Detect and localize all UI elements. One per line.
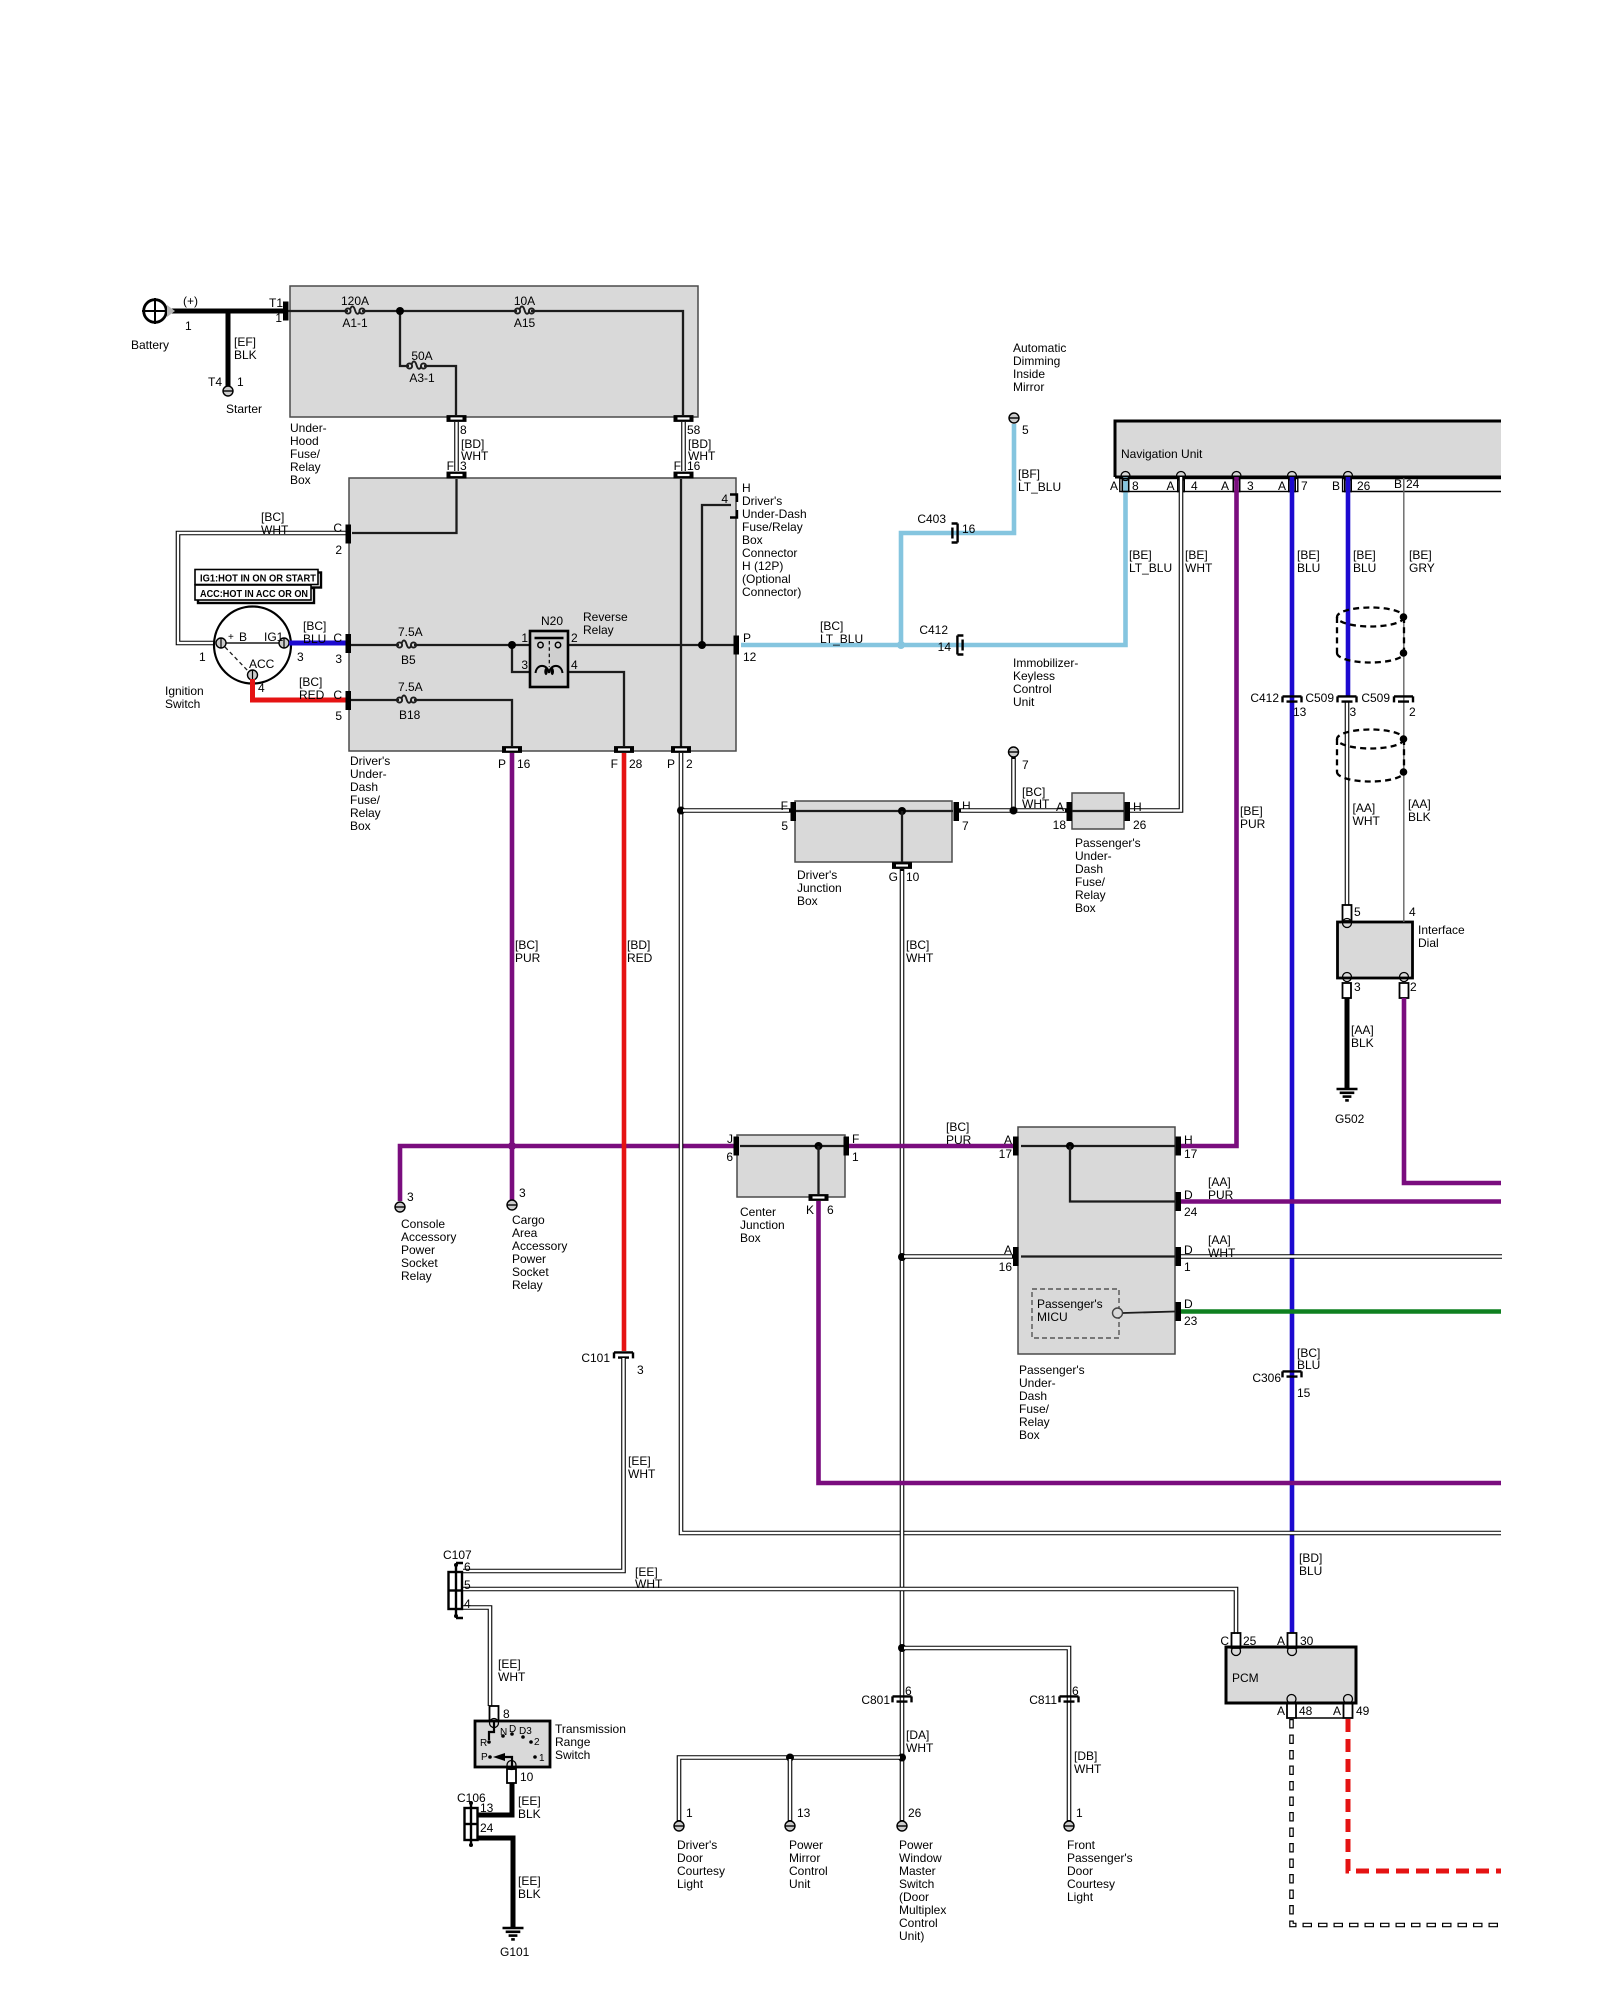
svg-text:Box: Box xyxy=(740,1231,761,1245)
interface dial pin 5 xyxy=(1343,905,1362,928)
svg-text:Driver's: Driver's xyxy=(350,754,390,768)
svg-text:WHT: WHT xyxy=(906,1741,934,1755)
svg-text:3: 3 xyxy=(407,1190,414,1204)
svg-text:24: 24 xyxy=(480,1821,494,1835)
wire branch to A16 xyxy=(898,1253,1013,1261)
svg-text:(Door: (Door xyxy=(899,1890,929,1904)
svg-text:[EE]: [EE] xyxy=(518,1874,541,1888)
svg-text:C: C xyxy=(333,521,342,535)
connector H17 xyxy=(1176,1133,1198,1161)
wire C101 to C107 pin6 [EE] WHT xyxy=(463,1358,656,1571)
svg-text:15: 15 xyxy=(1297,1386,1311,1400)
ignition switch feed loop [BC] WHT xyxy=(178,510,346,643)
svg-text:14: 14 xyxy=(938,640,952,654)
connector 58 / F16 xyxy=(674,415,716,478)
50A branch wire xyxy=(400,311,456,415)
power window master switch ground xyxy=(897,1806,946,1943)
svg-text:Dash: Dash xyxy=(350,780,378,794)
svg-text:F: F xyxy=(674,459,681,473)
Passenger's MICU xyxy=(1032,1289,1175,1338)
connector J6 xyxy=(726,1132,739,1164)
svg-text:Area: Area xyxy=(512,1226,538,1240)
passenger box internal A16-D1 xyxy=(1021,1255,1175,1257)
svg-text:C412: C412 xyxy=(1250,691,1279,705)
svg-text:6: 6 xyxy=(827,1203,834,1217)
purple junction xyxy=(508,1142,516,1150)
connector D1 xyxy=(1176,1243,1194,1274)
svg-text:3: 3 xyxy=(1354,980,1361,994)
Interface Dial xyxy=(1338,922,1466,978)
connector C107 xyxy=(443,1548,472,1618)
svg-text:Multiplex: Multiplex xyxy=(899,1903,946,1917)
svg-text:A: A xyxy=(1277,1704,1285,1718)
svg-text:2: 2 xyxy=(1410,980,1417,994)
svg-text:Courtesy: Courtesy xyxy=(1067,1877,1115,1891)
svg-text:1: 1 xyxy=(521,631,528,645)
svg-text:[EF]: [EF] xyxy=(234,335,256,349)
TRS pin 10 xyxy=(507,1761,534,1785)
connector P16 xyxy=(498,746,531,771)
wire C5 through fuse B18 to P16 xyxy=(351,700,512,746)
Under-Hood Fuse/Relay Box xyxy=(290,286,698,487)
svg-text:[BC]: [BC] xyxy=(299,675,322,689)
svg-text:16: 16 xyxy=(687,459,701,473)
svg-text:1: 1 xyxy=(852,1150,859,1164)
wire nav A7 to PCM A30 [BE]/[BC]/[BD] BLU xyxy=(1292,477,1322,1633)
svg-text:[BC]: [BC] xyxy=(906,938,929,952)
svg-text:C811: C811 xyxy=(1029,1693,1057,1707)
svg-text:Ignition: Ignition xyxy=(165,684,204,698)
TRS internals xyxy=(480,1721,545,1766)
svg-text:F: F xyxy=(611,757,618,771)
svg-text:Master: Master xyxy=(899,1864,936,1878)
svg-text:PCM: PCM xyxy=(1232,1671,1259,1685)
svg-text:T1: T1 xyxy=(269,296,283,310)
wire P12 to Navigation A8 [BC] LT_BLU xyxy=(741,477,1126,646)
nav pin A4 xyxy=(1166,472,1198,494)
svg-text:Power: Power xyxy=(401,1243,435,1257)
svg-text:[BD]: [BD] xyxy=(1299,1551,1322,1565)
svg-text:H: H xyxy=(1133,800,1142,814)
svg-text:PUR: PUR xyxy=(515,951,541,965)
svg-text:[BE]: [BE] xyxy=(1185,548,1208,562)
wire junction to F5 xyxy=(681,808,791,813)
svg-text:4: 4 xyxy=(1191,479,1198,493)
svg-text:G: G xyxy=(889,870,898,884)
connector D24 xyxy=(1176,1188,1198,1219)
svg-text:Hood: Hood xyxy=(290,434,319,448)
svg-text:Accessory: Accessory xyxy=(512,1239,567,1253)
svg-text:WHT: WHT xyxy=(261,523,289,537)
svg-text:2: 2 xyxy=(335,543,342,557)
wire nav B24 to interface dial pin4 [BE] GRY xyxy=(1403,478,1405,922)
svg-text:BLU: BLU xyxy=(1297,1358,1320,1372)
battery positive feed wire xyxy=(164,309,284,314)
svg-text:Relay: Relay xyxy=(290,460,321,474)
svg-text:F: F xyxy=(447,459,454,473)
svg-text:Fuse/: Fuse/ xyxy=(350,793,381,807)
svg-text:IG1: IG1 xyxy=(264,630,284,644)
connector A16 xyxy=(999,1243,1019,1274)
svg-text:T4: T4 xyxy=(208,375,222,389)
svg-text:B5: B5 xyxy=(401,653,416,667)
svg-text:ACC:HOT IN ACC OR ON: ACC:HOT IN ACC OR ON xyxy=(200,588,308,600)
svg-text:F: F xyxy=(781,799,788,813)
wire 8-F3 xyxy=(454,422,459,471)
svg-text:1: 1 xyxy=(1184,1260,1191,1274)
PCM pin A30 xyxy=(1277,1633,1314,1656)
svg-text:17: 17 xyxy=(1184,1147,1198,1161)
svg-text:8: 8 xyxy=(460,423,467,437)
svg-text:17: 17 xyxy=(999,1147,1013,1161)
svg-text:B: B xyxy=(239,630,247,644)
svg-text:3: 3 xyxy=(521,658,528,672)
svg-text:C509: C509 xyxy=(1361,691,1390,705)
svg-text:Fuse/Relay: Fuse/Relay xyxy=(742,520,803,534)
wire C106 24 to G101 [EE] BLK xyxy=(478,1838,541,1927)
svg-text:7: 7 xyxy=(1301,479,1308,493)
svg-text:+: + xyxy=(228,632,234,643)
svg-text:2: 2 xyxy=(686,757,693,771)
svg-text:Power: Power xyxy=(789,1838,823,1852)
svg-text:5: 5 xyxy=(1354,905,1361,919)
svg-text:2: 2 xyxy=(1409,705,1416,719)
svg-text:WHT: WHT xyxy=(635,1577,663,1591)
svg-text:A: A xyxy=(1056,800,1064,814)
svg-text:24: 24 xyxy=(1406,477,1420,491)
svg-text:Courtesy: Courtesy xyxy=(677,1864,725,1878)
svg-text:3: 3 xyxy=(637,1363,644,1377)
svg-text:G502: G502 xyxy=(1335,1112,1365,1126)
svg-text:Control: Control xyxy=(899,1916,938,1930)
svg-text:A: A xyxy=(1166,479,1174,493)
svg-text:3: 3 xyxy=(460,459,467,473)
wire nav A3 to H17 [BE] PUR xyxy=(1181,477,1266,1146)
svg-text:WHT: WHT xyxy=(906,951,934,965)
svg-text:Junction: Junction xyxy=(797,881,842,895)
ignition switch xyxy=(165,607,304,712)
connector C106 xyxy=(457,1791,494,1847)
svg-text:WHT: WHT xyxy=(628,1467,656,1481)
svg-text:4: 4 xyxy=(1409,905,1416,919)
svg-text:Passenger's: Passenger's xyxy=(1067,1851,1133,1865)
svg-text:13: 13 xyxy=(1293,705,1307,719)
svg-text:Box: Box xyxy=(1019,1428,1040,1442)
svg-text:Unit: Unit xyxy=(1013,695,1035,709)
shield 2 xyxy=(1337,730,1404,782)
connector A18 xyxy=(1053,800,1072,832)
svg-text:6: 6 xyxy=(726,1150,733,1164)
H connector description xyxy=(742,481,807,599)
svg-text:C412: C412 xyxy=(919,623,948,637)
svg-text:Unit): Unit) xyxy=(899,1929,924,1943)
wire D1 to right [AA] WHT xyxy=(1181,1233,1502,1260)
wire interface pin3 to G502 [AA] BLK xyxy=(1347,998,1374,1088)
svg-text:Driver's: Driver's xyxy=(797,868,837,882)
svg-text:23: 23 xyxy=(1184,1314,1198,1328)
svg-text:Navigation Unit: Navigation Unit xyxy=(1121,447,1203,461)
svg-text:26: 26 xyxy=(1133,818,1147,832)
connector C403 16 xyxy=(917,512,975,543)
wire accessory relay bus to center junction box xyxy=(400,1146,737,1201)
svg-text:26: 26 xyxy=(1357,479,1371,493)
svg-text:N: N xyxy=(500,1727,507,1738)
svg-text:Automatic: Automatic xyxy=(1013,341,1066,355)
svg-text:Door: Door xyxy=(1067,1864,1093,1878)
interface dial pin 4 xyxy=(1409,905,1416,919)
svg-text:BLK: BLK xyxy=(234,348,257,362)
svg-text:D3: D3 xyxy=(519,1726,532,1737)
svg-text:Light: Light xyxy=(677,1877,704,1891)
svg-text:16: 16 xyxy=(999,1260,1013,1274)
svg-text:6: 6 xyxy=(1072,1684,1079,1698)
wire branch to mirror [BF] LT_BLU xyxy=(897,424,1061,649)
PCM pin A49 xyxy=(1333,1695,1370,1719)
svg-text:A3-1: A3-1 xyxy=(409,371,435,385)
svg-text:[DB]: [DB] xyxy=(1074,1749,1097,1763)
svg-text:Console: Console xyxy=(401,1217,445,1231)
svg-text:A: A xyxy=(1277,1634,1285,1648)
svg-text:[BE]: [BE] xyxy=(1297,548,1320,562)
svg-text:7: 7 xyxy=(962,819,969,833)
svg-text:A1-1: A1-1 xyxy=(342,316,368,330)
svg-text:[DA]: [DA] xyxy=(906,1728,929,1742)
shield 1 drain dots xyxy=(1400,613,1408,657)
driver junction box internal bus xyxy=(796,807,953,862)
svg-text:Socket: Socket xyxy=(401,1256,438,1270)
svg-text:25: 25 xyxy=(1243,1634,1257,1648)
wire K6 purple to right xyxy=(819,1201,1502,1483)
ground G101 xyxy=(500,1928,530,1959)
svg-text:4: 4 xyxy=(571,658,578,672)
svg-text:12: 12 xyxy=(743,650,757,664)
svg-text:H: H xyxy=(1184,1133,1193,1147)
svg-text:4: 4 xyxy=(721,492,728,506)
svg-text:Dimming: Dimming xyxy=(1013,354,1060,368)
svg-text:Driver's: Driver's xyxy=(677,1838,717,1852)
svg-text:1: 1 xyxy=(237,375,244,389)
svg-text:BLU: BLU xyxy=(1297,561,1320,575)
svg-text:PUR: PUR xyxy=(946,1133,972,1147)
svg-text:Under-: Under- xyxy=(290,421,327,435)
svg-text:Door: Door xyxy=(677,1851,703,1865)
svg-text:WHT: WHT xyxy=(1208,1246,1236,1260)
svg-text:Switch: Switch xyxy=(555,1748,590,1762)
nav pin A8 xyxy=(1110,472,1139,494)
relay N20 wire pin4 to F28 xyxy=(566,672,624,746)
svg-text:1: 1 xyxy=(1076,1806,1083,1820)
svg-text:[AA]: [AA] xyxy=(1208,1175,1231,1189)
svg-text:Under-: Under- xyxy=(350,767,387,781)
svg-text:Relay: Relay xyxy=(1019,1415,1050,1429)
svg-text:LT_BLU: LT_BLU xyxy=(1018,480,1061,494)
connector H7 xyxy=(954,799,971,833)
svg-text:Inside: Inside xyxy=(1013,367,1045,381)
svg-text:[EE]: [EE] xyxy=(518,1794,541,1808)
front passenger's door courtesy light ground xyxy=(1064,1806,1133,1904)
svg-text:8: 8 xyxy=(503,1707,510,1721)
ground 7 above passenger box xyxy=(1009,747,1030,815)
wire ignition ACC to C5 [BC] RED xyxy=(253,675,349,702)
svg-text:4: 4 xyxy=(464,1597,471,1611)
svg-text:Power: Power xyxy=(512,1252,546,1266)
wire D24 to right [AA] PUR xyxy=(1181,1175,1501,1202)
svg-text:Relay: Relay xyxy=(583,623,614,637)
svg-text:Under-: Under- xyxy=(1075,849,1112,863)
wire P16 to cargo relay [BC] PUR xyxy=(512,753,541,1201)
svg-text:GRY: GRY xyxy=(1409,561,1435,575)
svg-text:Cargo: Cargo xyxy=(512,1213,545,1227)
svg-text:1: 1 xyxy=(539,1753,545,1764)
passenger box internal A17-H17 xyxy=(1021,1142,1175,1202)
Driver's Under-Dash Fuse/Relay Box xyxy=(349,478,736,833)
svg-text:[BE]: [BE] xyxy=(1129,548,1152,562)
svg-text:10: 10 xyxy=(520,1770,534,1784)
svg-text:[BE]: [BE] xyxy=(1353,548,1376,562)
svg-text:PUR: PUR xyxy=(1208,1188,1234,1202)
svg-text:Connector): Connector) xyxy=(742,585,801,599)
wire [BC] PUR center junction box to passenger box A17 xyxy=(845,1120,1014,1147)
wire TRS pin10 to C106 13 [EE] BLK xyxy=(478,1783,541,1821)
svg-text:Junction: Junction xyxy=(740,1218,785,1232)
svg-text:C801: C801 xyxy=(861,1693,890,1707)
console accessory power socket relay ground xyxy=(395,1190,456,1283)
svg-text:B: B xyxy=(1332,479,1340,493)
IG1 hot note box xyxy=(195,570,321,588)
nav pin A7 xyxy=(1278,472,1308,494)
svg-text:BLU: BLU xyxy=(303,632,326,646)
svg-text:D: D xyxy=(1184,1297,1193,1311)
svg-text:Box: Box xyxy=(797,894,818,908)
svg-text:Dash: Dash xyxy=(1075,862,1103,876)
svg-text:2: 2 xyxy=(571,631,578,645)
PCM pin C25 xyxy=(1220,1633,1256,1656)
Navigation Unit xyxy=(1115,421,1501,492)
svg-text:Battery: Battery xyxy=(131,338,169,352)
svg-text:24: 24 xyxy=(1184,1205,1198,1219)
svg-text:Dash: Dash xyxy=(1019,1389,1047,1403)
svg-text:LT_BLU: LT_BLU xyxy=(820,632,863,646)
center junction box internal xyxy=(740,1142,845,1194)
svg-text:WHT: WHT xyxy=(1022,797,1050,811)
svg-text:Keyless: Keyless xyxy=(1013,669,1055,683)
svg-text:50A: 50A xyxy=(411,349,432,363)
svg-text:BLK: BLK xyxy=(518,1887,541,1901)
svg-text:Center: Center xyxy=(740,1205,776,1219)
svg-text:1: 1 xyxy=(686,1806,693,1820)
svg-text:A: A xyxy=(1221,479,1229,493)
Passenger's Under-Dash Fuse/Relay Box (large) xyxy=(1018,1127,1175,1442)
svg-text:7.5A: 7.5A xyxy=(398,680,423,694)
wire PCM A49 red dashed xyxy=(1348,1719,1501,1871)
relay N20 xyxy=(521,610,628,687)
svg-text:Switch: Switch xyxy=(165,697,200,711)
svg-text:[AA]: [AA] xyxy=(1353,801,1376,815)
svg-text:Fuse/: Fuse/ xyxy=(290,447,321,461)
svg-text:Mirror: Mirror xyxy=(1013,380,1044,394)
svg-text:Fuse/: Fuse/ xyxy=(1019,1402,1050,1416)
interface dial pin 2 xyxy=(1400,973,1418,999)
svg-text:D: D xyxy=(509,1724,516,1735)
svg-text:C306: C306 xyxy=(1252,1371,1281,1385)
connector F28 xyxy=(611,746,643,771)
connector D23 xyxy=(1176,1297,1198,1328)
svg-text:3: 3 xyxy=(1247,479,1254,493)
svg-text:C101: C101 xyxy=(581,1351,610,1365)
svg-text:C403: C403 xyxy=(917,512,946,526)
nav pin A3 xyxy=(1221,472,1254,494)
wire PCM A48 black dashed xyxy=(1292,1719,1502,1925)
svg-text:Box: Box xyxy=(742,533,763,547)
shield 2 drain dots xyxy=(1400,735,1408,776)
svg-text:Under-: Under- xyxy=(1019,1376,1056,1390)
svg-text:N20: N20 xyxy=(541,614,563,628)
svg-text:P: P xyxy=(498,757,506,771)
ground G502 xyxy=(1335,1089,1365,1126)
Passenger's Under-Dash Fuse/Relay Box (small) xyxy=(1072,793,1141,915)
svg-text:LT_BLU: LT_BLU xyxy=(1129,561,1172,575)
svg-text:18: 18 xyxy=(1053,818,1067,832)
svg-text:P: P xyxy=(667,757,675,771)
fuse 50A A3-1 xyxy=(407,349,435,385)
svg-text:[AA]: [AA] xyxy=(1351,1023,1374,1037)
wire C3 through fuse B5 to relay xyxy=(351,644,532,646)
connector C2 xyxy=(333,521,351,557)
svg-text:F: F xyxy=(852,1132,859,1146)
fuse 7.5A B18 xyxy=(397,680,423,722)
relay N20 wire pin2 to P12 xyxy=(566,644,736,646)
svg-text:Relay: Relay xyxy=(350,806,381,820)
cargo area accessory power socket relay ground xyxy=(507,1186,567,1292)
connector K6 xyxy=(806,1194,834,1217)
svg-text:49: 49 xyxy=(1356,1704,1370,1718)
wire C107 pin4 to TRS pin8 [EE] WHT xyxy=(463,1608,526,1707)
connector F1 xyxy=(844,1132,860,1164)
svg-text:120A: 120A xyxy=(341,294,369,308)
svg-text:A: A xyxy=(1333,1704,1341,1718)
svg-text:BLU: BLU xyxy=(1353,561,1376,575)
connector C3 xyxy=(333,631,351,666)
svg-text:[AA]: [AA] xyxy=(1208,1233,1231,1247)
wire F28 to C101 [BD] RED xyxy=(624,753,653,1351)
wire F3 to C2 inside box xyxy=(352,479,457,533)
svg-text:Mirror: Mirror xyxy=(789,1851,820,1865)
fuse 10A A15 xyxy=(514,294,536,330)
svg-text:[BC]: [BC] xyxy=(946,1120,969,1134)
wire interface pin2 purple to right xyxy=(1404,998,1501,1183)
svg-text:13: 13 xyxy=(797,1806,811,1820)
connector C509 2 xyxy=(1361,691,1416,719)
svg-text:6: 6 xyxy=(905,1684,912,1698)
svg-text:Passenger's: Passenger's xyxy=(1075,836,1141,850)
connector T1 xyxy=(269,296,289,325)
Driver's Junction Box xyxy=(795,801,952,908)
svg-text:WHT: WHT xyxy=(1353,814,1381,828)
svg-text:BLK: BLK xyxy=(518,1807,541,1821)
connector C509 3 xyxy=(1305,691,1356,719)
svg-text:H (12P): H (12P) xyxy=(742,559,783,573)
junction xyxy=(396,307,404,315)
wire to starter xyxy=(226,311,231,386)
wire courtesy light bus xyxy=(679,1754,906,1823)
svg-text:48: 48 xyxy=(1299,1704,1313,1718)
svg-text:C509: C509 xyxy=(1305,691,1334,705)
svg-text:P: P xyxy=(481,1752,488,1763)
svg-text:[BD]: [BD] xyxy=(627,938,650,952)
H connector branch wire xyxy=(698,505,731,649)
wire nav A4 to H26 [BE] WHT xyxy=(1130,477,1181,811)
svg-text:C: C xyxy=(333,688,342,702)
